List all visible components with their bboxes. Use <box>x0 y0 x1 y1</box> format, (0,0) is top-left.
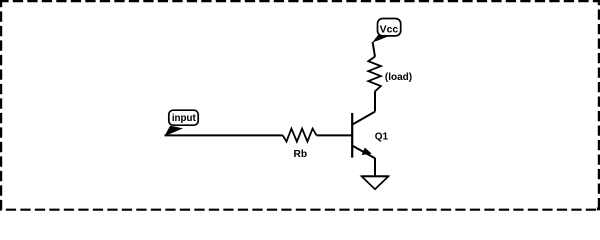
svg-text:(load): (load) <box>385 72 412 83</box>
wire collector up <box>374 91 376 111</box>
wire emitter down <box>374 158 376 176</box>
wire Rb to base <box>317 134 353 136</box>
wire input to Rb <box>165 134 284 136</box>
svg-text:Vcc: Vcc <box>380 25 399 36</box>
transistor Q1 <box>352 112 388 159</box>
ground <box>362 176 389 189</box>
svg-text:Rb: Rb <box>294 149 308 160</box>
resistor Rb <box>283 129 317 160</box>
svg-text:Q1: Q1 <box>375 132 389 143</box>
node Vcc (flag label) <box>372 19 401 43</box>
svg-text:input: input <box>172 113 197 124</box>
wire load to Vcc flag <box>373 42 375 57</box>
node input (flag label) <box>164 110 198 136</box>
resistor (load) <box>368 57 412 92</box>
